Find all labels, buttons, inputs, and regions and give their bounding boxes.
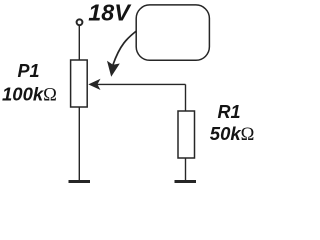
wire down from wiper to R1 top bbox=[185, 84, 187, 111]
callout box (rounded rectangle, empty) bbox=[136, 5, 209, 60]
svg-text:18V: 18V bbox=[88, 0, 132, 26]
svg-text:R1: R1 bbox=[218, 102, 241, 122]
svg-text:P1: P1 bbox=[18, 61, 40, 81]
wire from P1 bottom to ground bbox=[78, 107, 80, 181]
ground bar under P1 bbox=[69, 180, 91, 183]
curved callout arrowhead bbox=[107, 61, 120, 77]
svg-text:50kΩ: 50kΩ bbox=[210, 123, 255, 145]
wiper arrow of P1 (arrowhead into right side of body) bbox=[88, 79, 100, 90]
svg-text:100kΩ: 100kΩ bbox=[2, 83, 57, 105]
potentiometer P1 body bbox=[71, 60, 88, 107]
curved callout arrow shaft bbox=[113, 31, 136, 65]
ground bar under R1 bbox=[175, 180, 197, 183]
wire from R1 bottom to ground bbox=[185, 158, 187, 181]
wiper wire (horizontal) bbox=[97, 83, 186, 85]
resistor R1 body bbox=[178, 111, 195, 158]
wire from 18V terminal to P1 top bbox=[78, 26, 80, 60]
supply terminal circle (18V node) bbox=[77, 19, 83, 25]
